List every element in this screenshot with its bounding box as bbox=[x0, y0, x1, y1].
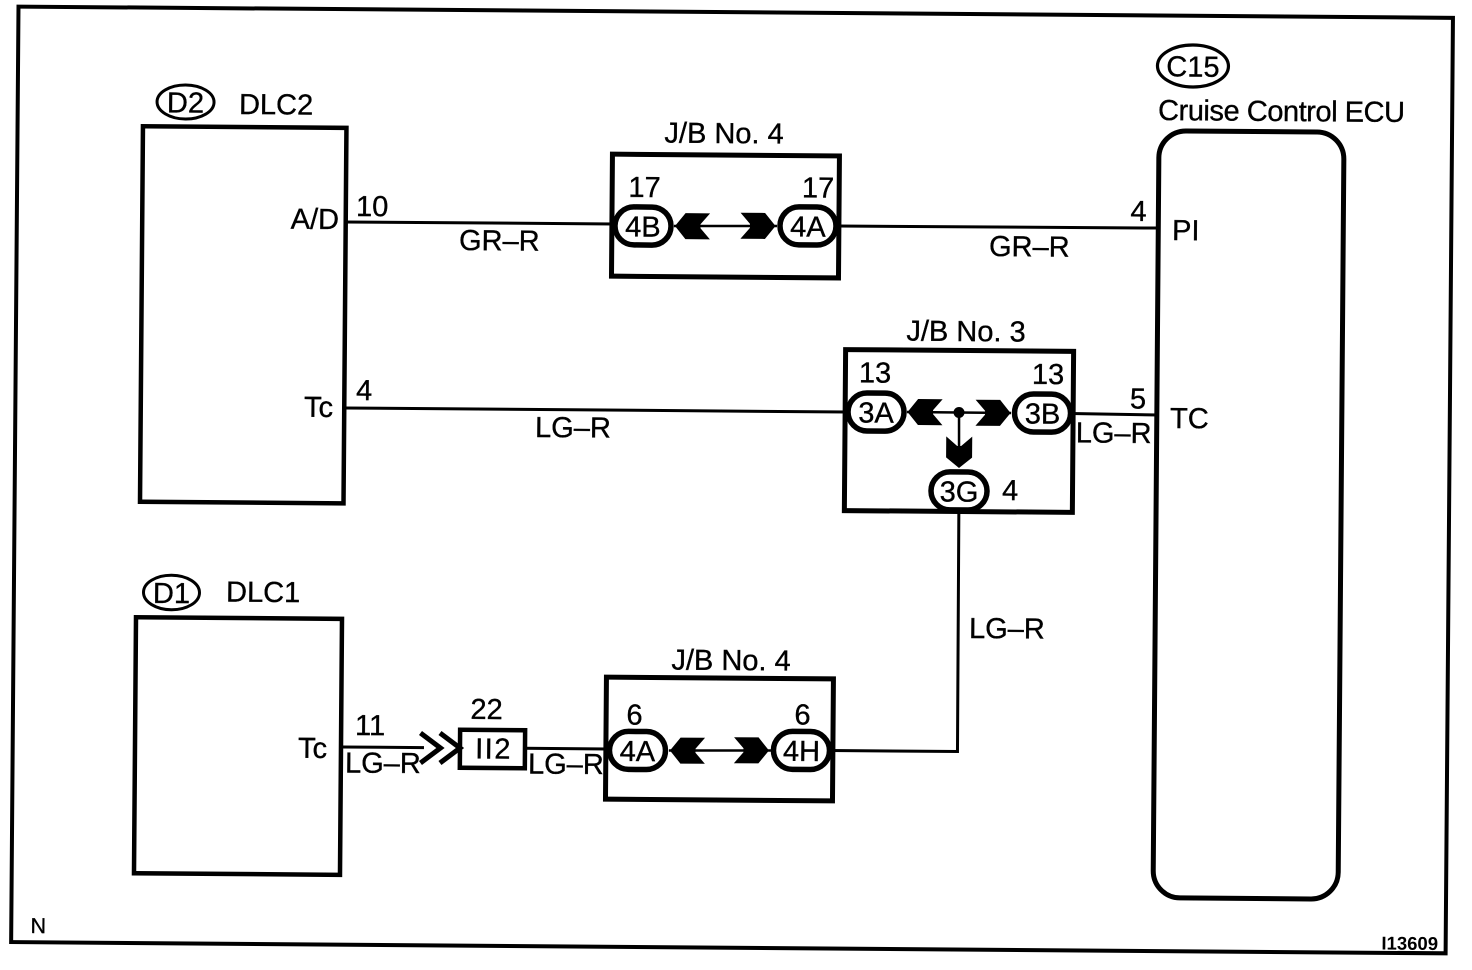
svg-text:I13609: I13609 bbox=[1381, 933, 1438, 954]
svg-text:3A: 3A bbox=[858, 397, 894, 429]
svg-text:J/B No. 4: J/B No. 4 bbox=[671, 645, 791, 678]
terminal 3B bbox=[1014, 394, 1070, 432]
svg-text:4: 4 bbox=[1002, 475, 1018, 507]
internal arrowhead toward 4B bbox=[675, 213, 710, 239]
svg-text:3B: 3B bbox=[1025, 398, 1061, 430]
svg-text:J/B No. 4: J/B No. 4 bbox=[664, 118, 784, 151]
svg-text:4: 4 bbox=[356, 375, 372, 407]
svg-text:4: 4 bbox=[1130, 196, 1146, 228]
internal arrowhead toward 4H bbox=[734, 737, 769, 763]
svg-text:4A: 4A bbox=[790, 211, 826, 243]
svg-text:Cruise Control ECU: Cruise Control ECU bbox=[1158, 95, 1405, 129]
internal arrowhead toward 4A (bottom) bbox=[670, 738, 705, 764]
svg-text:LG–R: LG–R bbox=[528, 749, 604, 782]
wire LG-R from J/B No.3 3B to ECU pin 5 bbox=[1071, 413, 1158, 415]
svg-text:11: 11 bbox=[355, 710, 385, 742]
svg-text:6: 6 bbox=[626, 699, 642, 731]
svg-text:GR–R: GR–R bbox=[989, 231, 1070, 264]
wire LG-R from J/B No.4 4H up to J/B No.3 3G bbox=[830, 512, 959, 751]
terminal 4H bbox=[773, 731, 829, 769]
svg-text:A/D: A/D bbox=[291, 204, 340, 236]
svg-text:4A: 4A bbox=[620, 736, 656, 768]
terminal 4B bbox=[615, 207, 671, 245]
svg-text:13: 13 bbox=[859, 357, 892, 389]
terminal 4A (bottom J/B) bbox=[609, 731, 665, 769]
svg-text:LG–R: LG–R bbox=[969, 613, 1045, 646]
svg-text:10: 10 bbox=[356, 191, 389, 223]
svg-text:D1: D1 bbox=[153, 578, 190, 610]
svg-text:13: 13 bbox=[1032, 359, 1065, 391]
svg-text:II2: II2 bbox=[475, 733, 512, 765]
wire LG-R from DLC1 Tc to connector II2 bbox=[342, 745, 424, 749]
svg-text:LG–R: LG–R bbox=[535, 412, 611, 445]
internal arrowhead toward 3B bbox=[975, 400, 1010, 426]
svg-text:GR–R: GR–R bbox=[459, 225, 540, 258]
wire LG-R from II2 to J/B No.4 terminal 4A bbox=[524, 747, 608, 751]
svg-text:DLC2: DLC2 bbox=[239, 89, 313, 122]
connector DLC2 body bbox=[140, 126, 346, 503]
svg-text:22: 22 bbox=[470, 694, 503, 726]
svg-text:4H: 4H bbox=[783, 736, 820, 768]
connector DLC1 body bbox=[134, 617, 342, 875]
svg-text:Tc: Tc bbox=[298, 733, 327, 765]
terminal 4A (top J/B) bbox=[780, 207, 836, 245]
connector code oval C15 bbox=[1157, 45, 1228, 88]
svg-text:3G: 3G bbox=[940, 476, 979, 508]
svg-text:J/B No. 3: J/B No. 3 bbox=[906, 316, 1026, 349]
inline connector II2 box bbox=[460, 730, 525, 769]
svg-text:LG–R: LG–R bbox=[345, 747, 421, 780]
svg-text:N: N bbox=[30, 914, 46, 938]
internal arrowhead toward 3G bbox=[946, 436, 972, 468]
svg-text:17: 17 bbox=[802, 172, 835, 204]
connector code oval D2 bbox=[157, 85, 214, 120]
svg-text:4B: 4B bbox=[625, 211, 661, 243]
internal link wire 3A-3B bbox=[907, 412, 1011, 413]
svg-text:TC: TC bbox=[1170, 403, 1209, 435]
terminal 3G bbox=[931, 472, 987, 510]
male connector chevron 1 bbox=[420, 733, 440, 763]
svg-text:DLC1: DLC1 bbox=[226, 577, 300, 610]
internal link wire 4A-4H bbox=[669, 750, 771, 752]
junction block J/B No. 3 box bbox=[844, 350, 1073, 513]
svg-text:5: 5 bbox=[1130, 383, 1146, 415]
internal link wire junction to 3G bbox=[957, 413, 960, 462]
svg-text:D2: D2 bbox=[167, 87, 204, 119]
internal arrowhead toward 4A bbox=[740, 213, 775, 239]
svg-text:6: 6 bbox=[794, 699, 810, 731]
svg-text:Tc: Tc bbox=[304, 392, 333, 424]
internal arrowhead toward 3A bbox=[907, 399, 942, 425]
wire LG-R from DLC2 Tc to J/B No.3 terminal 3A bbox=[345, 408, 847, 412]
wire GR-R from DLC2 A/D to J/B No.4 terminal 4B bbox=[345, 222, 614, 224]
connector code oval D1 bbox=[143, 575, 199, 610]
svg-text:C15: C15 bbox=[1166, 51, 1219, 83]
svg-text:17: 17 bbox=[628, 172, 661, 204]
junction node dot in J/B No. 3 bbox=[953, 407, 964, 418]
svg-text:LG–R: LG–R bbox=[1076, 417, 1152, 450]
terminal 3A bbox=[848, 393, 904, 431]
wire GR-R from J/B No.4 4A to ECU pin 4 bbox=[837, 226, 1158, 229]
Cruise Control ECU body bbox=[1153, 131, 1344, 899]
junction block J/B No. 4 box (top) bbox=[611, 154, 839, 278]
junction block J/B No. 4 box (bottom) bbox=[605, 677, 833, 801]
internal link wire 4B-4A bbox=[674, 225, 777, 227]
svg-text:PI: PI bbox=[1172, 215, 1200, 247]
male connector chevron 2 bbox=[440, 733, 460, 763]
